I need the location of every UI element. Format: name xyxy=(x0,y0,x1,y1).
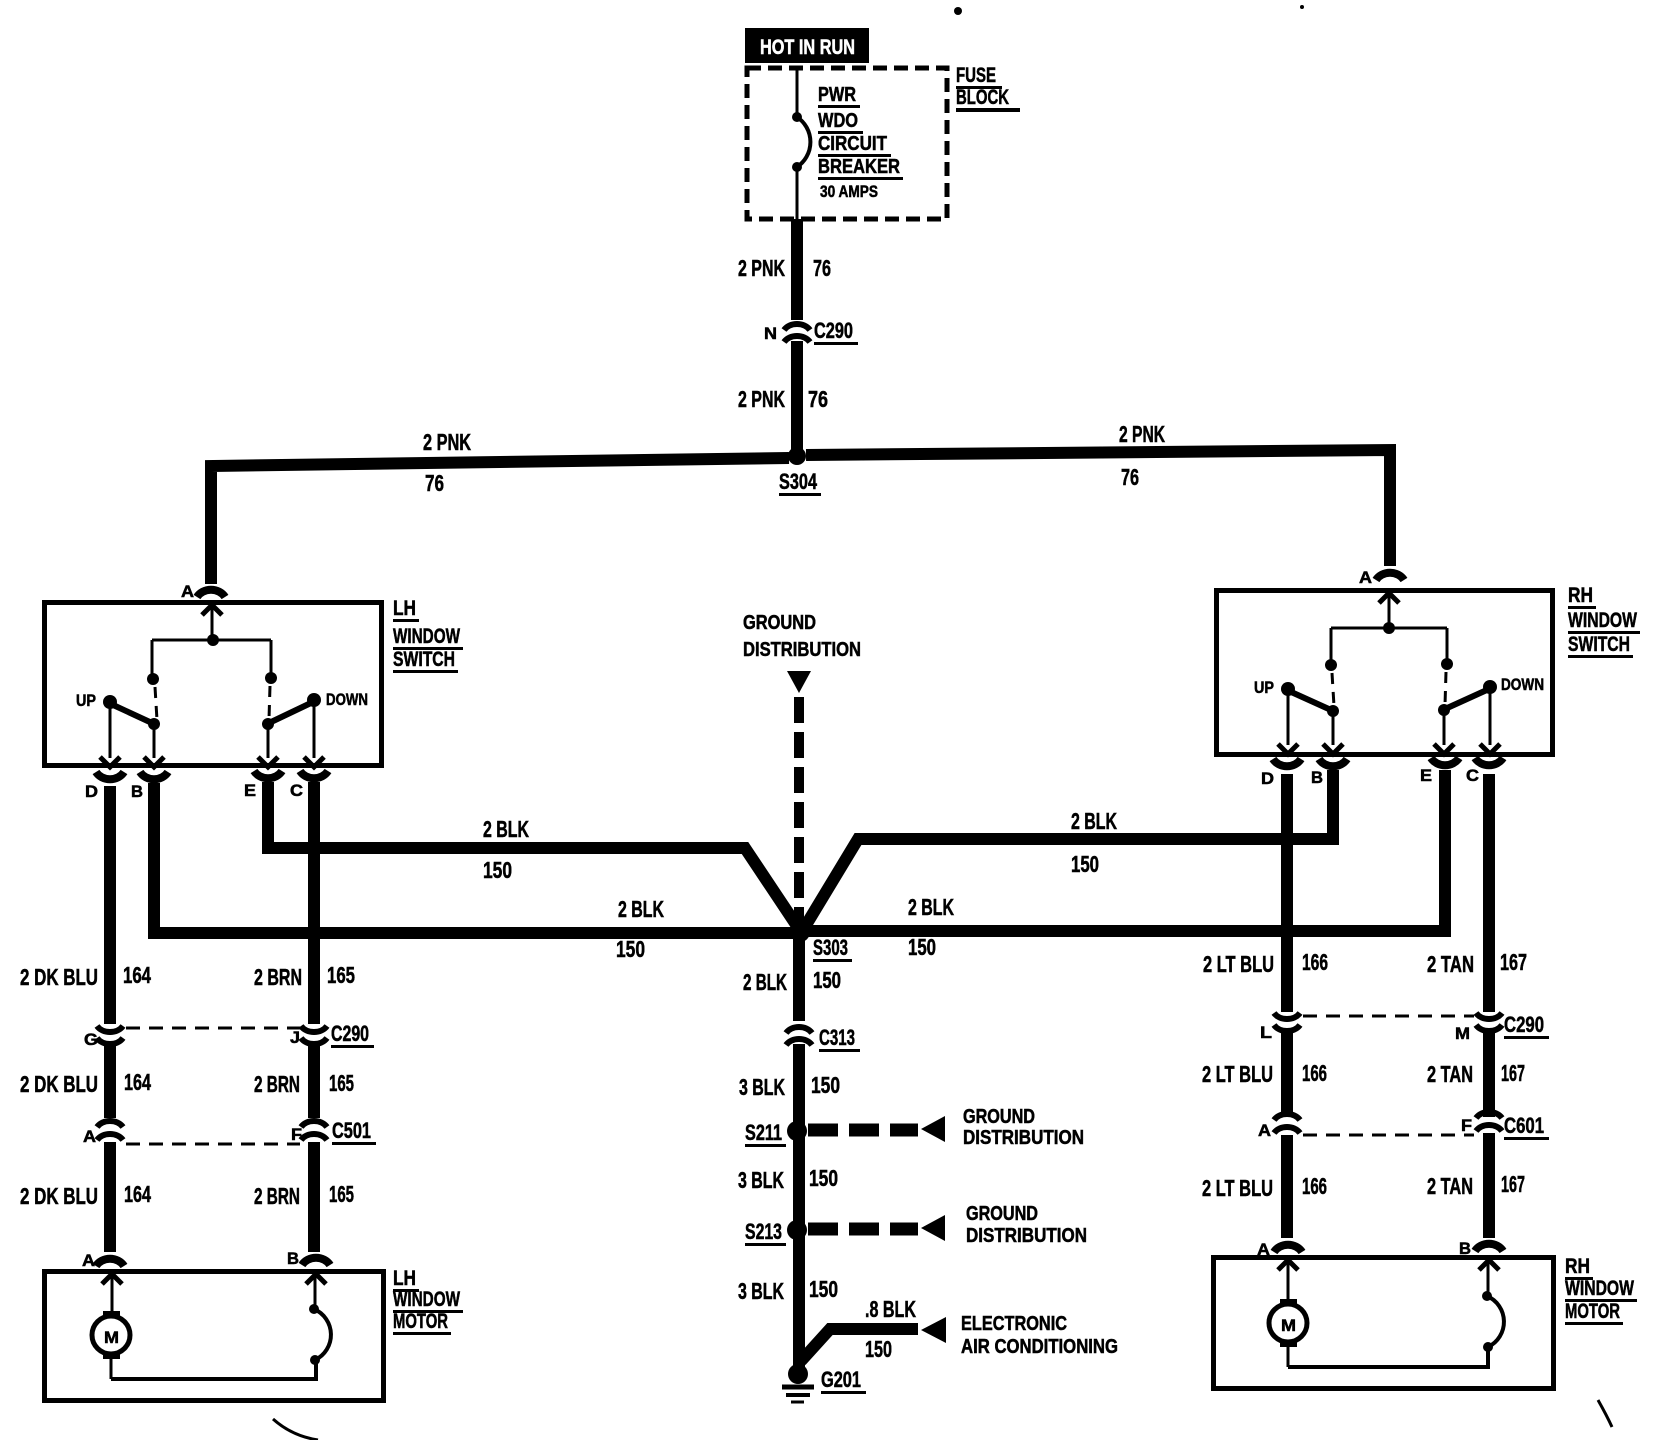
svg-text:C290: C290 xyxy=(1504,1012,1544,1037)
svg-text:76: 76 xyxy=(1121,464,1139,490)
wire 2 PNK 76 from breaker xyxy=(791,219,803,320)
svg-text:F: F xyxy=(291,1125,302,1144)
label B RH xyxy=(1311,768,1323,787)
connector terminal A LH switch xyxy=(197,590,225,597)
splice S304 xyxy=(788,447,806,465)
svg-text:C290: C290 xyxy=(814,318,853,343)
label 2 BLK 150 far right xyxy=(1071,808,1117,877)
svg-text:C601: C601 xyxy=(1504,1113,1544,1138)
wire 2 PNK left branch xyxy=(211,458,789,584)
connector C601 terminal F xyxy=(1476,1112,1502,1131)
label 2 PNK 76 upper xyxy=(738,255,831,281)
svg-text:D: D xyxy=(1261,769,1274,788)
noise speck xyxy=(954,7,962,15)
svg-text:BLOCK: BLOCK xyxy=(956,86,1009,109)
label A mid-right xyxy=(1258,1121,1271,1140)
noise tick bottom-left xyxy=(273,1419,318,1440)
svg-text:S303: S303 xyxy=(813,935,848,960)
svg-text:GROUND: GROUND xyxy=(966,1203,1038,1225)
ground distribution arrow triangle xyxy=(787,671,811,693)
svg-text:DISTRIBUTION: DISTRIBUTION xyxy=(963,1127,1084,1149)
label UP RH xyxy=(1254,678,1274,697)
svg-text:L: L xyxy=(1260,1023,1272,1042)
svg-text:M: M xyxy=(104,1328,119,1347)
connector C290 terminal N xyxy=(784,324,810,342)
svg-text:2 BLK: 2 BLK xyxy=(1071,808,1117,834)
svg-text:167: 167 xyxy=(1501,1060,1525,1086)
connector terminal D LH xyxy=(96,772,124,779)
noise tick bottom-right xyxy=(1598,1400,1612,1427)
connector C290 terminal G xyxy=(97,1026,123,1044)
svg-text:F: F xyxy=(1461,1116,1472,1135)
wire 2 BLK 150 (terminal E to S303, upper left) xyxy=(268,782,799,929)
RH window motor box xyxy=(1214,1258,1554,1389)
label ground distribution S211 xyxy=(963,1106,1084,1149)
svg-text:LH: LH xyxy=(393,1267,416,1290)
svg-text:MOTOR: MOTOR xyxy=(393,1310,448,1333)
wire 3 BLK 150 (S211 to S213) xyxy=(793,1137,805,1224)
label C RH xyxy=(1466,766,1479,785)
connector C501 terminal F xyxy=(301,1121,327,1140)
svg-text:150: 150 xyxy=(813,967,841,993)
label B motor-left xyxy=(287,1249,299,1268)
svg-text:AIR CONDITIONING: AIR CONDITIONING xyxy=(961,1336,1118,1358)
label DOWN LH xyxy=(326,690,368,709)
svg-text:2 PNK: 2 PNK xyxy=(1119,421,1165,447)
label S213 xyxy=(745,1219,786,1246)
svg-text:GROUND: GROUND xyxy=(963,1106,1035,1128)
RH motor internal circuit breaker xyxy=(1288,1260,1504,1367)
svg-text:3 BLK: 3 BLK xyxy=(738,1167,784,1193)
wire 2 PNK 76 to S304 xyxy=(791,341,803,451)
svg-text:2 LT BLU: 2 LT BLU xyxy=(1202,1175,1273,1201)
connector terminal A LH motor xyxy=(96,1259,124,1266)
svg-text:E: E xyxy=(244,781,256,800)
wire 2 LT BLU 166 (A to motor) xyxy=(1281,1135,1293,1238)
connector terminal E LH xyxy=(254,771,282,778)
connector terminal C LH xyxy=(300,771,328,778)
label N xyxy=(764,324,777,343)
wire 2 PNK right branch xyxy=(806,450,1390,566)
connector terminal B RH motor xyxy=(1475,1244,1503,1251)
wire 2 BRN 165 (J to F) xyxy=(308,1042,320,1118)
svg-text:2 BLK: 2 BLK xyxy=(483,816,529,842)
svg-text:UP: UP xyxy=(76,691,96,710)
svg-text:C: C xyxy=(290,781,303,800)
label 2 BLK 150 lower-left xyxy=(616,896,664,962)
label 2 DK BLU 164 row3 xyxy=(20,1181,151,1209)
wire 2 LT BLU 166 (terminal D to L) xyxy=(1281,774,1293,1012)
svg-text:D: D xyxy=(85,782,98,801)
RH switch internals xyxy=(1278,593,1500,754)
svg-text:LH: LH xyxy=(393,597,416,620)
svg-text:DISTRIBUTION: DISTRIBUTION xyxy=(966,1225,1087,1247)
LH switch internals xyxy=(100,605,324,767)
ground G201 xyxy=(782,1364,814,1402)
wire 2 TAN 167 (terminal C to M) xyxy=(1483,774,1495,1012)
label 2 TAN 167 row2 xyxy=(1427,1060,1525,1087)
label G xyxy=(84,1030,98,1049)
svg-text:2 PNK: 2 PNK xyxy=(423,429,471,455)
svg-text:164: 164 xyxy=(124,1069,151,1095)
svg-text:A: A xyxy=(181,582,194,601)
svg-text:RH: RH xyxy=(1565,1255,1590,1278)
connector terminal B RH xyxy=(1319,759,1347,766)
svg-text:J: J xyxy=(290,1028,300,1047)
label A mid-left xyxy=(83,1127,96,1146)
wire 2 LT BLU 166 (L to A) xyxy=(1281,1029,1293,1117)
svg-text:2 PNK: 2 PNK xyxy=(738,386,785,412)
wire 2 BLK 150 (S303 to RH lower) xyxy=(806,770,1445,931)
ground distribution header xyxy=(743,612,861,661)
label C601 xyxy=(1504,1113,1549,1140)
label 2 BLK 150 upper-left xyxy=(483,816,529,883)
label 2 DK BLU 164 row2 xyxy=(20,1069,151,1097)
motor M LH xyxy=(92,1274,130,1379)
svg-text:76: 76 xyxy=(813,255,831,281)
dashed connector line A-F xyxy=(126,1143,300,1146)
wire 2 BLK 150 (terminal B to S303, lower left) xyxy=(154,783,794,933)
svg-text:S213: S213 xyxy=(745,1219,782,1244)
label D RH xyxy=(1261,769,1274,788)
svg-text:E: E xyxy=(1420,766,1432,785)
label S303 xyxy=(813,935,852,962)
label C290 xyxy=(814,318,858,345)
svg-text:2 DK BLU: 2 DK BLU xyxy=(20,1183,98,1209)
label A xyxy=(181,582,194,601)
svg-text:2 BLK: 2 BLK xyxy=(743,969,787,995)
svg-text:2 TAN: 2 TAN xyxy=(1427,1173,1473,1199)
svg-text:164: 164 xyxy=(124,1181,151,1207)
svg-text:A: A xyxy=(1258,1121,1271,1140)
svg-text:PWR: PWR xyxy=(818,84,856,106)
dashed connector line A-F right xyxy=(1303,1134,1474,1137)
LH window switch name xyxy=(393,597,463,673)
label C290 right xyxy=(1504,1012,1549,1039)
label 2 LT BLU 166 row2 xyxy=(1202,1060,1327,1087)
splice S303 xyxy=(790,922,810,942)
LH window motor box xyxy=(45,1272,384,1401)
circuit breaker PWR WDO 30A xyxy=(792,68,810,219)
svg-text:150: 150 xyxy=(809,1165,838,1191)
svg-text:B: B xyxy=(1311,768,1323,787)
wire 2 DK BLU 164 (G to A) xyxy=(104,1042,116,1118)
svg-text:WINDOW: WINDOW xyxy=(393,1288,460,1311)
splice S211 xyxy=(787,1121,807,1141)
connector C290 terminal M xyxy=(1476,1013,1502,1031)
svg-text:2 PNK: 2 PNK xyxy=(738,255,785,281)
svg-text:166: 166 xyxy=(1302,1173,1327,1199)
svg-text:150: 150 xyxy=(811,1072,840,1098)
svg-text:2 TAN: 2 TAN xyxy=(1427,951,1474,977)
label A motor-right xyxy=(1257,1240,1270,1259)
label 2 BLK 150 upper-right near S303 xyxy=(908,894,954,960)
label J xyxy=(290,1028,300,1047)
connector terminal A RH motor xyxy=(1274,1245,1302,1252)
svg-text:UP: UP xyxy=(1254,678,1274,697)
svg-text:S304: S304 xyxy=(779,469,818,494)
svg-text:166: 166 xyxy=(1302,1060,1327,1086)
label G201 xyxy=(821,1367,866,1394)
label C313 xyxy=(819,1025,860,1052)
svg-text:2 BRN: 2 BRN xyxy=(254,1071,300,1097)
wire .8 BLK 150 to electronic air conditioning xyxy=(801,1317,946,1361)
svg-text:76: 76 xyxy=(808,386,828,412)
label 2 PNK 76 right xyxy=(1119,421,1165,490)
label L xyxy=(1260,1023,1272,1042)
label electronic air conditioning xyxy=(961,1313,1118,1358)
label A RH xyxy=(1359,568,1372,587)
connector C601 terminal A xyxy=(1274,1114,1300,1133)
fuse block dashed box xyxy=(747,68,947,219)
svg-text:C313: C313 xyxy=(819,1025,855,1050)
svg-text:C501: C501 xyxy=(332,1118,371,1143)
label 2 PNK 76 left xyxy=(423,429,471,496)
label M xyxy=(1455,1024,1470,1043)
svg-text:2 DK BLU: 2 DK BLU xyxy=(20,964,98,990)
label C xyxy=(290,781,303,800)
wire 2 TAN 167 (M to F) xyxy=(1483,1029,1495,1117)
svg-text:FUSE: FUSE xyxy=(956,64,996,87)
svg-text:165: 165 xyxy=(329,1070,354,1096)
RH window switch name xyxy=(1568,584,1640,658)
svg-text:150: 150 xyxy=(865,1336,892,1362)
svg-text:M: M xyxy=(1281,1316,1296,1335)
svg-text:DOWN: DOWN xyxy=(1501,675,1544,694)
svg-text:N: N xyxy=(764,324,777,343)
label 3 BLK 150 row1 xyxy=(739,1072,840,1100)
svg-text:76: 76 xyxy=(425,470,444,496)
wire 2 TAN 167 (F to motor) xyxy=(1483,1133,1495,1238)
RH window switch box xyxy=(1217,591,1553,755)
svg-text:GROUND: GROUND xyxy=(743,612,816,634)
svg-text:ELECTRONIC: ELECTRONIC xyxy=(961,1313,1067,1335)
HOT IN RUN label box xyxy=(745,28,869,63)
svg-text:SWITCH: SWITCH xyxy=(1568,633,1630,656)
connector C501 terminal A xyxy=(97,1121,123,1140)
label A motor-left xyxy=(82,1251,95,1270)
label B motor-right xyxy=(1459,1239,1471,1258)
label UP LH xyxy=(76,691,96,710)
wire 2 BRN 165 (terminal C to J) xyxy=(308,782,320,1024)
connector C313 xyxy=(786,1027,812,1045)
label C290 left xyxy=(331,1021,374,1048)
svg-text:3 BLK: 3 BLK xyxy=(738,1278,784,1304)
label E RH xyxy=(1420,766,1432,785)
label F xyxy=(291,1125,302,1144)
svg-text:166: 166 xyxy=(1302,949,1328,975)
svg-text:WINDOW: WINDOW xyxy=(393,625,460,648)
svg-text:WINDOW: WINDOW xyxy=(1565,1277,1634,1300)
label S211 xyxy=(745,1120,786,1147)
svg-text:A: A xyxy=(83,1127,96,1146)
svg-text:C: C xyxy=(1466,766,1479,785)
svg-text:MOTOR: MOTOR xyxy=(1565,1300,1620,1323)
connector terminal D RH xyxy=(1273,759,1301,766)
dashed wire from ground distribution xyxy=(794,697,804,924)
svg-text:M: M xyxy=(1455,1024,1470,1043)
svg-text:150: 150 xyxy=(616,936,645,962)
fuse block name xyxy=(956,64,1020,112)
svg-text:167: 167 xyxy=(1501,1171,1525,1197)
svg-text:2 BLK: 2 BLK xyxy=(908,894,954,920)
label 2 LT BLU 166 row1 xyxy=(1203,949,1328,977)
label D xyxy=(85,782,98,801)
svg-text:150: 150 xyxy=(908,934,936,960)
svg-text:165: 165 xyxy=(327,962,355,988)
connector C290 terminal L xyxy=(1274,1013,1300,1031)
dashed connector line G-J xyxy=(126,1027,300,1030)
label 2 DK BLU 164 row1 xyxy=(20,962,151,990)
label 2 TAN 167 row1 xyxy=(1427,949,1527,977)
svg-text:WDO: WDO xyxy=(818,110,858,132)
connector terminal E RH xyxy=(1431,758,1459,765)
svg-text:150: 150 xyxy=(483,857,512,883)
svg-text:2 BRN: 2 BRN xyxy=(254,1183,300,1209)
svg-text:G: G xyxy=(84,1030,98,1049)
noise speck 2 xyxy=(1300,5,1304,9)
label B xyxy=(131,782,143,801)
svg-text:C290: C290 xyxy=(331,1021,369,1046)
connector C290 terminal J xyxy=(301,1026,327,1044)
svg-text:2 LT BLU: 2 LT BLU xyxy=(1202,1061,1273,1087)
label 2 PNK 76 mid xyxy=(738,386,828,412)
svg-text:30 AMPS: 30 AMPS xyxy=(820,182,878,201)
svg-text:2 TAN: 2 TAN xyxy=(1427,1061,1473,1087)
wire 2 DK BLU 164 (terminal D to G) xyxy=(104,786,116,1024)
connector terminal C RH xyxy=(1475,758,1503,765)
connector terminal B LH motor xyxy=(302,1258,330,1265)
wire 3 BLK 150 (S213 to G201) xyxy=(793,1236,805,1368)
svg-text:165: 165 xyxy=(329,1181,354,1207)
label 2 TAN 167 row3 xyxy=(1427,1171,1525,1199)
svg-text:WINDOW: WINDOW xyxy=(1568,609,1637,632)
svg-text:DOWN: DOWN xyxy=(326,690,368,709)
dashed wire to ground distribution (S211) xyxy=(808,1116,945,1142)
svg-text:2 DK BLU: 2 DK BLU xyxy=(20,1071,98,1097)
svg-text:2 BRN: 2 BRN xyxy=(254,964,302,990)
svg-text:.8 BLK: .8 BLK xyxy=(865,1296,916,1322)
wire 2 BLK 150 (S303 to RH upper) xyxy=(803,770,1333,930)
label 2 BLK 150 center xyxy=(743,967,841,995)
svg-text:CIRCUIT: CIRCUIT xyxy=(818,133,887,155)
wire 2 BLK 150 (S303 to C313) xyxy=(793,933,805,1021)
svg-text:167: 167 xyxy=(1500,949,1527,975)
svg-text:G201: G201 xyxy=(821,1367,861,1392)
LH window switch box xyxy=(45,603,382,766)
svg-text:HOT IN RUN: HOT IN RUN xyxy=(760,36,855,59)
svg-text:150: 150 xyxy=(809,1276,838,1302)
svg-text:DISTRIBUTION: DISTRIBUTION xyxy=(743,639,861,661)
label 3 BLK 150 row2 xyxy=(738,1165,838,1193)
svg-text:150: 150 xyxy=(1071,851,1099,877)
svg-text:BREAKER: BREAKER xyxy=(818,156,900,178)
label S304 xyxy=(779,469,821,496)
svg-text:2 LT BLU: 2 LT BLU xyxy=(1203,951,1274,977)
svg-text:A: A xyxy=(82,1251,95,1270)
svg-text:B: B xyxy=(131,782,143,801)
label DOWN RH xyxy=(1501,675,1544,694)
label E xyxy=(244,781,256,800)
label 2 BRN 165 row3 xyxy=(254,1181,354,1209)
label F RH xyxy=(1461,1116,1472,1135)
svg-text:164: 164 xyxy=(123,962,151,988)
svg-text:S211: S211 xyxy=(745,1120,782,1145)
label 3 BLK 150 row3 xyxy=(738,1276,838,1304)
svg-text:3 BLK: 3 BLK xyxy=(739,1074,785,1100)
label .8 BLK 150 xyxy=(865,1296,916,1362)
dashed connector line L-M xyxy=(1303,1015,1474,1018)
label ground distribution S213 xyxy=(966,1203,1087,1247)
wire 3 BLK 150 (C313 to S211) xyxy=(793,1044,805,1125)
breaker value labels xyxy=(818,84,903,201)
LH window motor name xyxy=(393,1267,463,1335)
svg-text:RH: RH xyxy=(1568,584,1593,607)
svg-text:B: B xyxy=(287,1249,299,1268)
label 2 BRN 165 row2 xyxy=(254,1070,354,1097)
wire 2 DK BLU 164 (A to motor) xyxy=(104,1142,116,1252)
svg-text:2 BLK: 2 BLK xyxy=(618,896,664,922)
splice S213 xyxy=(787,1220,807,1240)
wire 2 BRN 165 (F to motor) xyxy=(308,1142,320,1252)
dashed wire to ground distribution (S213) xyxy=(808,1215,945,1241)
label C501 xyxy=(332,1118,376,1145)
label 2 BRN 165 row1 xyxy=(254,962,355,990)
connector terminal B LH xyxy=(140,772,168,779)
label 2 LT BLU 166 row3 xyxy=(1202,1173,1327,1201)
svg-text:A: A xyxy=(1359,568,1372,587)
motor M RH xyxy=(1269,1260,1307,1367)
svg-text:SWITCH: SWITCH xyxy=(393,648,455,671)
LH motor internal circuit breaker xyxy=(111,1274,331,1379)
connector terminal A RH switch xyxy=(1376,573,1404,580)
RH window motor name xyxy=(1565,1255,1637,1325)
